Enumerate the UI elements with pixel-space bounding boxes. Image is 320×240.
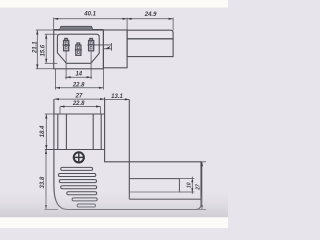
vent slot 5 xyxy=(67,192,97,195)
front view thick top edge xyxy=(54,29,104,31)
recess bottom lighter xyxy=(129,191,179,193)
clamp plate line xyxy=(45,149,105,151)
cable clamp inner wall right xyxy=(92,114,94,150)
angled connector body outline xyxy=(54,97,201,209)
dimension 18.4 (clamp height) xyxy=(45,114,54,150)
vent slot 4 xyxy=(61,186,97,189)
side view body lower rect xyxy=(127,39,173,57)
photo vignette xyxy=(0,8,228,218)
socket recess rect xyxy=(129,179,179,192)
vent slot 1 xyxy=(61,167,93,170)
page background (white) xyxy=(0,0,228,228)
photo area background xyxy=(0,8,228,218)
dimension 15.6 (face height) xyxy=(45,34,58,63)
dimension 13.1 (to socket recess) xyxy=(105,98,130,100)
side view mounting flange rect xyxy=(103,30,127,68)
socket recess left edge / 13.1 extension xyxy=(128,99,130,199)
front view inner recessed face (chamfered bottom corners) xyxy=(57,34,99,63)
side view body upper rect xyxy=(127,30,173,39)
vent slot 2 xyxy=(58,174,95,177)
dimension 24.9 xyxy=(127,18,173,31)
latch tab (gray bar) on flange top xyxy=(59,26,93,30)
dimension 14 (pin spacing) xyxy=(65,51,92,79)
dimension 40.1 xyxy=(54,18,127,30)
screw head xyxy=(74,152,84,162)
dimension 27 (overall width) xyxy=(54,98,104,100)
front view outer flange rect xyxy=(54,30,104,69)
vent slot 6 xyxy=(72,198,97,201)
cable clamp inner wall left xyxy=(65,114,67,150)
dimension 21.1 (outer height) xyxy=(36,30,54,69)
vent slot 3 xyxy=(59,180,96,183)
dimension 22.8 (face width, top drawing) xyxy=(56,69,104,90)
dimension 10 (recess height) xyxy=(179,177,194,194)
dimension 33.8 (body height) xyxy=(45,150,59,210)
arm underside line xyxy=(129,198,201,200)
inner step line left xyxy=(57,114,59,150)
inner step line right xyxy=(100,114,102,150)
pin N (right contact slot) xyxy=(88,39,95,51)
pin E (center contact slot, offset lower) xyxy=(75,43,82,55)
dimension 4 leader at right pin xyxy=(95,43,112,51)
dimension 27 (arm height, right) xyxy=(198,162,207,210)
dimension 22.8 (clamp width) xyxy=(60,105,101,114)
vent slot 7 xyxy=(77,204,95,207)
body top edge xyxy=(54,113,105,115)
pin L (left contact slot) xyxy=(63,39,70,51)
